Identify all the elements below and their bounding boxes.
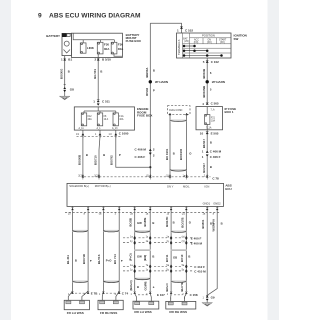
- ground G8: [59, 88, 74, 100]
- svg-text:C 158: C 158: [190, 293, 198, 297]
- ignition switch U-IGN: [177, 33, 232, 58]
- IP fuse box 1: [196, 107, 236, 130]
- svg-text:A_1: A_1: [97, 127, 102, 130]
- svg-text:BL/77B: BL/77B: [180, 282, 184, 292]
- twisted arc pair4 top: [171, 231, 186, 233]
- svg-text:B: B: [210, 140, 212, 144]
- twisted pair arc bottom: [170, 169, 187, 171]
- battery B1: [46, 33, 71, 55]
- long feed wire from junction to ECU: [149, 23, 151, 177]
- svg-text:C 410 M: C 410 M: [194, 270, 206, 274]
- svg-text:IGN: IGN: [205, 185, 210, 189]
- svg-text:P+O: P+O: [106, 259, 112, 263]
- svg-text:ABS ECU WIRING DIAGRAM: ABS ECU WIRING DIAGRAM: [49, 13, 141, 20]
- svg-text:B: B: [137, 285, 139, 289]
- svg-text:G8: G8: [70, 88, 74, 92]
- svg-text:(1): (1): [182, 240, 185, 243]
- wire fuse F14 to long feed wire: [116, 136, 151, 167]
- connector C 158: [167, 292, 198, 302]
- connector C 1000 below engine room fuse box: [76, 130, 129, 138]
- svg-text:(2): (2): [182, 213, 185, 216]
- wire from fuse F34 to box edge: [114, 54, 122, 56]
- svg-text:(I/O): (I/O): [194, 42, 199, 44]
- svg-text:2(1): 2(1): [78, 174, 82, 177]
- svg-text:C 406 F: C 406 F: [135, 155, 146, 159]
- svg-text:BO/117: BO/117: [202, 163, 206, 173]
- svg-text:B1: B1: [68, 58, 72, 62]
- wire C406 to ECU connector: [206, 156, 208, 176]
- pin C 102 bottom: [203, 58, 219, 65]
- svg-text:B/2+O: B/2+O: [165, 283, 169, 292]
- svg-text:FR LH WSS: FR LH WSS: [67, 311, 84, 315]
- svg-text:RR LH WSS: RR LH WSS: [134, 310, 151, 314]
- svg-text:30A: 30A: [118, 47, 124, 51]
- svg-text:2(1): 2(1): [94, 174, 98, 177]
- svg-text:BO/50B: BO/50B: [78, 155, 82, 165]
- fuse F12 20A: [79, 113, 93, 130]
- wire GND1 to ground: [206, 211, 208, 296]
- connector E 107: [131, 292, 166, 302]
- svg-text:P: P: [153, 89, 155, 93]
- wire stub to fuse F34: [113, 40, 115, 43]
- svg-text:C 412 F: C 412 F: [194, 265, 205, 269]
- wire WSS FR +: [102, 211, 104, 291]
- svg-text:GND2: GND2: [213, 202, 221, 206]
- wire diag left to ECU: [169, 114, 171, 177]
- svg-text:BF/117: BF/117: [202, 139, 206, 148]
- svg-text:B: B: [173, 152, 175, 156]
- svg-text:MO/L: MO/L: [183, 185, 190, 189]
- connector line below ECU: [65, 211, 220, 213]
- ground G9: [202, 301, 213, 307]
- svg-text:B: B: [75, 259, 77, 263]
- svg-text:W/GMP/A: W/GMP/A: [211, 219, 215, 232]
- battery mount fuse box: [71, 33, 141, 58]
- svg-text:C 406 M: C 406 M: [210, 149, 222, 153]
- wire WSS FL +: [72, 211, 74, 291]
- twisted arc pair3 top: [135, 230, 151, 232]
- engine room fuse box: [74, 107, 152, 130]
- svg-text:E 400 M: E 400 M: [191, 241, 203, 245]
- wire fuse F12 to ECU: [82, 136, 84, 177]
- wire stub to fuse F30: [99, 40, 101, 43]
- ignition contact row 3: [183, 54, 223, 57]
- sensor RR LH WSS: [133, 301, 159, 314]
- svg-text:C 511: C 511: [102, 100, 110, 104]
- svg-text:SW: SW: [234, 37, 239, 41]
- fuse F8 10A: [97, 113, 109, 130]
- wire WSS RR -: [185, 211, 187, 291]
- svg-text:B: B: [210, 165, 212, 169]
- svg-text:40A: 40A: [119, 118, 124, 121]
- svg-text:B: B: [103, 153, 105, 157]
- svg-text:B: B: [68, 70, 70, 74]
- svg-text:B: B: [188, 255, 190, 259]
- pin B1 under battery: [61, 56, 72, 62]
- svg-text:BO 714: BO 714: [113, 254, 117, 264]
- connector C 74: [99, 291, 128, 300]
- fuse F30 30A: [97, 42, 110, 54]
- wire feed to ignition switch: [150, 23, 181, 33]
- fuse F21 10A inside IP fuse box: [205, 107, 216, 130]
- svg-text:FUSE BOX: FUSE BOX: [126, 39, 141, 43]
- title: [38, 13, 141, 20]
- pins on C78 line: [78, 174, 208, 180]
- svg-text:C 1000: C 1000: [119, 132, 129, 136]
- svg-text:B: B: [100, 70, 102, 74]
- twisted pair arc top: [170, 120, 187, 122]
- svg-text:TERMINALS: TERMINALS: [177, 39, 181, 55]
- svg-text:E 400 F: E 400 F: [191, 236, 202, 240]
- svg-text:BO801: BO801: [201, 219, 205, 228]
- svg-text:BR/30A: BR/30A: [145, 68, 149, 78]
- bus inside engine room fuse box: [84, 107, 116, 113]
- wire stub to fusible link: [82, 40, 84, 43]
- svg-text:RR RH WSS: RR RH WSS: [169, 310, 187, 314]
- svg-text:B: B: [86, 153, 88, 157]
- svg-text:C 505: C 505: [211, 102, 219, 106]
- svg-text:I/P HARN: I/P HARN: [155, 80, 168, 84]
- svg-text:IP/102: IP/102: [145, 87, 149, 96]
- svg-text:BG/710: BG/710: [94, 155, 98, 165]
- pin B 5/10 under fuse F30: [95, 54, 112, 62]
- wire battery to ground G8: [64, 62, 66, 87]
- left page-edge strip (decorative): [0, 0, 11, 320]
- svg-text:G9: G9: [211, 295, 215, 299]
- twisted arc pair2 top: [103, 230, 119, 232]
- svg-text:BOX 1: BOX 1: [225, 110, 234, 114]
- svg-text:BF/10NB: BF/10NB: [202, 86, 206, 98]
- wire WSS RL -: [149, 211, 151, 291]
- wire ignition sw to IP fuse box 1: [206, 65, 208, 102]
- svg-text:C 406 M: C 406 M: [135, 147, 147, 151]
- twisted arc pair1 top: [73, 230, 89, 232]
- sensor FR LH WSS: [64, 300, 89, 315]
- svg-text:C 406 F: C 406 F: [210, 155, 221, 159]
- svg-text:B 5/10: B 5/10: [102, 58, 111, 62]
- label IGNITION SW: [234, 34, 247, 41]
- diagnosis connector (dashed box): [168, 106, 191, 115]
- svg-text:BO/LTD: BO/LTD: [165, 217, 169, 227]
- svg-text:BL 211: BL 211: [66, 255, 70, 264]
- svg-text:B: B: [153, 69, 155, 73]
- svg-text:C 78: C 78: [212, 177, 219, 181]
- svg-text:GN Y: GN Y: [167, 185, 174, 189]
- shield bar pair3: [134, 249, 150, 251]
- ABS ECU U1: [67, 183, 232, 206]
- svg-text:E 7B: E 7B: [91, 291, 99, 295]
- junction I/P harness (left): [149, 80, 168, 84]
- wire GND2 to ground: [208, 211, 217, 295]
- twisted arc pair2 bottom: [103, 281, 119, 283]
- svg-text:E 107: E 107: [157, 293, 165, 297]
- junction I/P harness (right): [206, 80, 225, 84]
- svg-text:I/P HARN: I/P HARN: [212, 80, 225, 84]
- ignition contact row 1: [183, 45, 196, 48]
- svg-text:SOLENOID B(+): SOLENOID B(+): [69, 184, 89, 188]
- connector pair C 406 M / C 406 F on IP wire: [202, 149, 222, 159]
- svg-text:(1): (1): [146, 174, 149, 177]
- bus wire inside fuse box: [73, 33, 114, 40]
- svg-text:BO/17B: BO/17B: [180, 217, 184, 227]
- pin C 102 top: [177, 26, 193, 32]
- svg-text:C 102: C 102: [211, 60, 219, 64]
- pin C 511: [93, 100, 110, 106]
- svg-text:B: B: [152, 255, 154, 259]
- svg-text:BO/71D: BO/71D: [82, 254, 86, 264]
- twisted arc pair4 bottom: [171, 281, 186, 283]
- svg-text:BO/2B: BO/2B: [129, 218, 133, 227]
- svg-text:FR RH WSS: FR RH WSS: [100, 311, 117, 315]
- svg-text:BO/30G: BO/30G: [59, 69, 63, 79]
- svg-text:7_A: 7_A: [211, 109, 216, 112]
- twisted arc pair3 bottom: [135, 278, 151, 280]
- svg-text:BG 501: BG 501: [93, 69, 97, 79]
- svg-text:BO 1901: BO 1901: [165, 148, 169, 160]
- svg-text:20A: 20A: [88, 118, 93, 121]
- svg-text:B: B: [221, 221, 223, 225]
- sensor RR RH WSS: [166, 301, 196, 313]
- svg-text:ECU: ECU: [225, 187, 231, 191]
- svg-text:E 505: E 505: [211, 131, 219, 135]
- svg-text:(I/O): (I/O): [184, 41, 189, 43]
- svg-text:C 74: C 74: [122, 291, 129, 295]
- svg-text:GW: GW: [137, 221, 142, 225]
- svg-text:GW: GW: [137, 255, 142, 259]
- fuse F14 40A: [112, 113, 124, 130]
- svg-text:FUSE BOX: FUSE BOX: [137, 114, 152, 118]
- svg-text:(I/O): (I/O): [220, 42, 225, 44]
- svg-text:F1A: F1A: [119, 115, 124, 118]
- svg-text:B: B: [152, 221, 154, 225]
- svg-text:GND1: GND1: [203, 202, 211, 206]
- fusible link: [80, 43, 94, 54]
- wire diag right to ECU: [186, 114, 188, 177]
- wire fuse F8 to ECU: [99, 136, 100, 177]
- svg-text:GB: GB: [173, 256, 177, 260]
- twisted arc pair1 bottom: [73, 281, 89, 283]
- svg-text:BATTERY: BATTERY: [46, 34, 60, 38]
- pin at ground G9: [203, 295, 215, 300]
- svg-text:P: P: [119, 153, 121, 157]
- ECU bottom pins: [68, 206, 218, 215]
- svg-text:C 102: C 102: [185, 28, 193, 32]
- svg-text:B/710: B/710: [180, 254, 184, 262]
- svg-text:LINK: LINK: [87, 46, 95, 50]
- connector E 7B: [68, 291, 98, 300]
- connector C 412 F / C 412 M rows: [123, 264, 206, 274]
- svg-text:GO/PB: GO/PB: [144, 281, 148, 290]
- right page-edge strip (decorative): [268, 0, 280, 320]
- ignition contact row 2: [183, 49, 209, 52]
- svg-text:POSITION: POSITION: [202, 34, 215, 38]
- junction with engine-room feed: [149, 166, 151, 168]
- svg-text:BO/PB: BO/PB: [143, 218, 147, 227]
- connector E 400 F / E 400 M rows: [123, 235, 202, 245]
- connector pair C 406 M / C 406 F on long wire: [135, 147, 155, 159]
- svg-text:BO/1900: BO/1900: [179, 148, 183, 160]
- svg-text:10 A: 10 A: [104, 118, 109, 121]
- svg-text:A_13: A_13: [112, 127, 118, 130]
- svg-text:B/711: B/711: [165, 254, 169, 262]
- svg-text:(I/O): (I/O): [207, 42, 212, 44]
- connector line C 78 above ECU: [84, 177, 219, 181]
- shield bar pair4: [171, 249, 187, 251]
- wire fuse box to engine room fuse box: [97, 62, 99, 100]
- svg-text:(1): (1): [166, 174, 169, 177]
- connector pin on ground wire: [64, 83, 66, 85]
- svg-text:A_11: A_11: [79, 127, 85, 130]
- pin E 505 below IP fuse box: [200, 130, 219, 151]
- wire WSS RL +: [134, 211, 136, 291]
- svg-text:30A: 30A: [104, 47, 110, 51]
- svg-text:(B/2+O): (B/2+O): [129, 280, 133, 290]
- svg-text:(P+O): (P+O): [129, 253, 133, 261]
- fuse F34 30A: [111, 42, 124, 54]
- wire WSS FL -: [87, 211, 89, 291]
- wire WSS RR +: [170, 211, 172, 291]
- svg-text:MOTOR B(+): MOTOR B(+): [95, 184, 111, 188]
- svg-text:(B/2): (B/2): [143, 255, 147, 261]
- svg-text:10A: 10A: [211, 119, 216, 122]
- svg-text:(a): (a): [182, 235, 185, 238]
- svg-text:DIAG CONN: DIAG CONN: [169, 109, 182, 112]
- svg-text:10: 10: [200, 131, 204, 135]
- pin C 505: [202, 102, 219, 107]
- svg-text:BF/10B: BF/10B: [202, 69, 206, 79]
- svg-text:B: B: [173, 221, 175, 225]
- svg-text:BL/71S: BL/71S: [97, 254, 101, 264]
- sensor FR RH WSS: [98, 300, 123, 315]
- wire WSS FR -: [118, 211, 120, 291]
- svg-text:BO/792: BO/792: [109, 155, 113, 165]
- svg-text:9: 9: [38, 13, 42, 20]
- pins under diagnosis connector: [169, 113, 188, 115]
